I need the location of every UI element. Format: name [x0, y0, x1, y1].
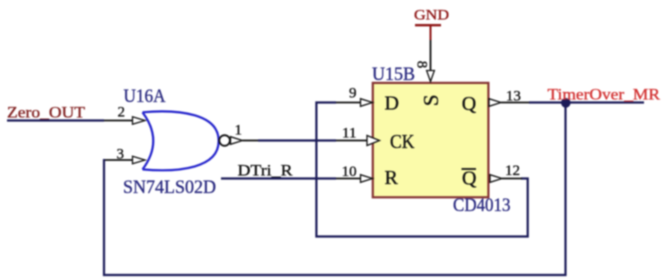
svg-text:3: 3	[117, 146, 125, 162]
svg-text:TimerOver_MR: TimerOver_MR	[548, 86, 661, 103]
U16A output bubble	[219, 135, 230, 146]
wire Qbar feedback to D	[316, 103, 527, 237]
svg-text:R: R	[385, 167, 399, 189]
junction dot	[561, 98, 571, 108]
pin 1 of U16A (output)	[231, 137, 243, 145]
svg-text:CK: CK	[390, 131, 415, 153]
svg-text:12: 12	[505, 163, 520, 179]
svg-text:D: D	[385, 93, 399, 115]
svg-text:1: 1	[235, 123, 243, 139]
pin 9 D pin line	[336, 102, 362, 104]
wire pin1 to CK	[258, 139, 336, 141]
NOR gate U16A body	[143, 111, 219, 170]
wire pin3 feedback: left vertical	[103, 159, 105, 276]
svg-text:DTri_R: DTri_R	[238, 163, 293, 180]
pin 13 Q output	[489, 99, 501, 107]
svg-text:U16A: U16A	[124, 87, 167, 107]
pin 12 Q-bar output	[490, 175, 502, 183]
svg-text:13: 13	[506, 89, 521, 105]
pin 10 R pin line	[336, 178, 362, 180]
svg-text:Q: Q	[462, 93, 477, 115]
svg-text:U15B: U15B	[372, 65, 415, 85]
wire Zero_OUT to pin 2	[7, 119, 104, 121]
pin 8 S pin line	[430, 40, 432, 71]
svg-text:9: 9	[349, 85, 357, 101]
wire bottom horizontal	[103, 274, 567, 276]
svg-text:Q: Q	[462, 168, 477, 190]
D flip-flop U15B body	[373, 83, 489, 197]
pin 11 CK pin line	[336, 140, 368, 142]
svg-text:11: 11	[342, 126, 356, 142]
wire DTri_R to pin 10	[221, 177, 336, 179]
pin 2 of U16A	[104, 120, 132, 122]
svg-text:CD4013: CD4013	[453, 196, 511, 216]
svg-text:SN74LS02D: SN74LS02D	[123, 178, 216, 198]
wire right vertical	[564, 103, 566, 277]
svg-text:S: S	[419, 94, 443, 106]
pin 3 of U16A	[104, 159, 132, 161]
svg-text:10: 10	[342, 164, 357, 180]
svg-text:Zero_OUT: Zero_OUT	[7, 104, 85, 121]
svg-text:8: 8	[414, 61, 430, 69]
svg-text:GND: GND	[414, 8, 449, 24]
wire Q to TimerOver_MR	[529, 101, 644, 103]
